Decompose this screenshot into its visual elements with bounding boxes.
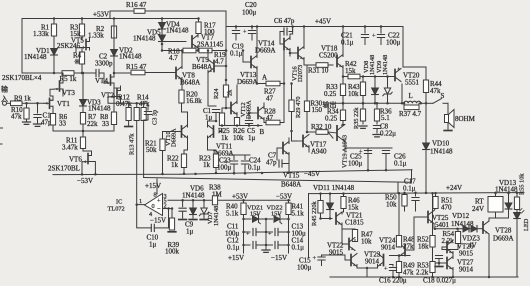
capacitor C3 3p [147,103,149,110]
transistor VT10 D669A [181,126,183,137]
wire C2-VT4 gate [104,73,105,83]
resistor R40 5.1k [241,203,246,215]
wire R50 10k [403,192,406,195]
wire VT12 collector [236,85,238,104]
capacitor C19 0.1u [235,25,238,28]
svg-text:3300p: 3300p [95,60,113,68]
resistor R7 22k [82,106,84,113]
wire +15V corner [144,178,412,183]
svg-text:R13 47k: R13 47k [129,133,136,155]
svg-text:15V: 15V [250,211,261,218]
svg-text:47k: 47k [430,87,441,95]
svg-text:0.1μ: 0.1μ [341,39,354,47]
wire VT23a base [345,259,351,261]
resistor R2 [113,19,115,27]
svg-text:+: + [268,231,272,238]
capacitor C15 100u [321,255,323,257]
svg-text:9015: 9015 [459,250,474,258]
node input terminal [3,101,7,105]
wire output line [330,102,404,104]
diode VD8 1N4148 [374,75,377,78]
svg-text:C16 220μ: C16 220μ [379,277,407,285]
svg-text:150: 150 [312,106,323,114]
svg-text:B648A: B648A [192,63,212,71]
capacitor C23 100u [233,155,235,160]
svg-text:47: 47 [266,95,274,103]
svg-text:2SK170BL×4: 2SK170BL×4 [2,74,42,82]
speaker 80HM [447,103,449,111]
wire VT14 collector [290,34,293,40]
resistor R25 1k [219,113,224,126]
wire VT14 base [280,43,284,45]
capacitor C12 0.1u [244,244,251,246]
transistor VT9 B648A [213,61,215,72]
wire VT18 collector [342,27,344,57]
svg-text:R31 10: R31 10 [308,67,329,75]
transistor VT15 B648A [282,143,284,154]
wire VT1-VT3 column [50,95,53,97]
wire L3-B2 link [397,182,399,193]
svg-text:16.8k: 16.8k [186,97,202,105]
wire VT6 drain [83,149,92,156]
wire R25 top [221,108,223,113]
svg-text:1k: 1k [171,161,179,169]
svg-text:+15V: +15V [145,182,161,190]
svg-text:−: − [157,206,161,213]
svg-text:+15V: +15V [228,254,244,262]
wire VT20 emitter down [401,84,403,103]
svg-text:+45V: +45V [315,18,331,26]
wire VT24 emitter [398,257,400,262]
svg-text:VT6: VT6 [69,156,82,164]
svg-text:VT1: VT1 [57,100,70,108]
svg-text:15k: 15k [348,204,359,212]
wire +45V rail [226,26,403,28]
wire VD5 bottom [161,42,163,51]
relay RT 24V [488,197,503,213]
node +15V out [243,251,245,253]
resistor R16 [134,9,145,14]
resistor R33 0.25 [342,77,344,85]
resistor R43 10k [362,75,365,78]
svg-text:2SK170BL: 2SK170BL [48,165,80,173]
svg-text:27k: 27k [403,243,414,251]
svg-text:2SA1145: 2SA1145 [197,41,224,49]
wire VT23b collector [377,255,379,257]
svg-text:8OHM: 8OHM [455,115,476,123]
resistor R34 0.25 [342,103,344,110]
wire VT9 base-x226 [214,65,226,67]
transistor VT18 C5200 [336,56,338,67]
wire VT13 base [243,61,251,63]
svg-text:1N4148: 1N4148 [182,192,205,200]
svg-text:50k: 50k [146,146,157,154]
svg-text:VT15: VT15 [283,172,300,180]
wire VT12b emitter [263,118,265,123]
wire VD2 bottom [113,56,115,73]
resistor R4 [79,52,84,64]
capacitor C13 100u [266,231,273,233]
wire VT20 collector node [402,27,404,68]
transistor VT11 D669A [213,126,215,137]
wire R32 branch [306,131,309,134]
svg-text:33: 33 [59,120,67,128]
wire opamp out [137,204,145,206]
switch S [426,102,433,104]
wire VT10 base [163,131,182,133]
svg-text:1N4148: 1N4148 [133,35,156,43]
resistor R31 10 [307,64,316,66]
svg-text:R9 1k: R9 1k [14,95,31,103]
transistor VT5 2SK246 [81,36,83,40]
wire VT22 base [342,229,349,244]
svg-text:10k: 10k [386,201,397,209]
resistor R36 5.1 [376,102,379,105]
svg-text:1N4148: 1N4148 [88,105,111,113]
resistor R20 16.8k [181,90,184,93]
svg-text:10k: 10k [233,134,244,142]
wire VT15 base [277,147,283,149]
wire A-node feedback [283,44,285,123]
wire R16 branch [109,11,111,19]
resistor R15 47 [114,72,131,74]
transistor VT16 D2073 [297,48,299,59]
wire VT14 emitter [289,49,291,57]
capacitor C10 1u [151,224,154,231]
svg-text:输: 输 [1,85,8,94]
capacitor C21 0.1u [364,25,367,28]
svg-text:1N4148: 1N4148 [430,148,453,156]
svg-text:1N4148: 1N4148 [495,186,518,194]
wire protection left edge [308,194,310,258]
resistor R24 2k [225,80,227,85]
resistor R9 1k [7,102,11,104]
wire VT12 emitter-R25 [236,113,238,118]
transistor VT28 D669A [482,222,484,233]
resistor R23 1k [213,154,218,168]
resistor R22 1k [181,154,186,168]
svg-text:VT4: VT4 [95,77,108,85]
wire VT3 gate [50,89,54,96]
diodes VD12 [463,226,469,232]
resistor mid column [143,103,145,107]
svg-text:0.1μ: 0.1μ [394,160,407,168]
svg-text:1μ: 1μ [205,114,213,122]
resistor R5 1k [62,71,74,76]
capacitor C24 0.1u [244,155,246,160]
transistor VT19 A1943 [336,126,338,140]
wire B node bus [222,125,262,127]
resistor R29 470 [291,84,293,101]
resistor R18 4.7 [162,50,183,52]
wire VT28 emitter [488,234,490,277]
svg-text:10k: 10k [361,238,372,246]
svg-text:LED: LED [523,218,530,231]
resistor R37 4.7 [403,103,405,107]
wire VT15 collector [288,138,290,144]
resistor R39 100k [171,209,173,219]
svg-text:1μ: 1μ [248,134,256,142]
transistor VT8 B648A [175,68,177,79]
wire rail right corner [411,170,413,183]
svg-text:R16 47: R16 47 [126,1,147,9]
svg-text:A940: A940 [311,148,327,156]
wire VT12b collector [263,103,265,109]
wire VT12 base [226,107,231,109]
svg-text:1N4148: 1N4148 [166,27,189,35]
wire R5 line [22,72,62,74]
capacitor C1 47p [36,102,39,105]
wire VT21 collector [341,212,343,214]
wire VT5 gate [76,48,81,52]
resistor R3 [81,19,83,25]
svg-text:0.1μ: 0.1μ [403,185,416,193]
svg-text:47k: 47k [403,269,414,277]
svg-text:3.47k: 3.47k [62,144,78,152]
svg-text:+: + [313,255,317,262]
svg-text:5.1k: 5.1k [292,210,305,218]
svg-text:4.7: 4.7 [215,58,224,66]
wire opamp V+ lead [156,179,158,194]
transistor VT1 [49,98,51,108]
svg-text:−53V: −53V [77,177,93,185]
svg-text:9014: 9014 [381,244,396,252]
wire VT17 emitter [308,146,310,153]
wire VT23 emitters [357,265,378,269]
wire VT18 emitter [342,66,344,77]
wire VT24 links [398,246,400,249]
resistor R49 47k [398,256,400,262]
wire VT13 collector up [256,27,258,58]
resistor R26 10k [234,118,239,126]
wire R48-R49 node [398,254,401,257]
wire VT25 base [414,216,428,218]
wire VT22 col/emit [354,239,356,241]
svg-text:IC: IC [116,199,122,206]
wire x307 rail [306,65,308,101]
svg-text:0.25: 0.25 [324,90,337,98]
svg-text:+24V: +24V [446,184,462,192]
wire VT17 base [292,140,298,142]
wire bottom rail [330,276,518,278]
svg-text:2k: 2k [227,89,234,96]
inductor L [404,101,421,103]
svg-text:2SK246: 2SK246 [57,42,80,50]
svg-text:+: + [246,231,250,238]
wire -53V rail left end [53,173,180,175]
wire R14 long vertical [136,121,138,205]
svg-text:1μ: 1μ [186,228,194,236]
wire VT16 emitter down [303,58,305,66]
resistor R47 10k [352,230,357,242]
diode VD5 [161,29,163,35]
svg-text:S: S [441,92,445,100]
capacitor C8 0.22u [376,121,378,124]
transistor VT27 9014 [446,258,448,269]
wire VT10 collector [187,112,189,127]
capacitor C14 0.1u [266,244,273,246]
svg-text:0.1μ: 0.1μ [227,244,240,252]
svg-text:5.1k: 5.1k [226,210,239,218]
svg-text:0.1μ: 0.1μ [230,50,243,58]
wire reg left rail [243,200,245,251]
svg-text:100μ: 100μ [242,9,257,17]
svg-text:1: 1 [139,198,142,205]
wire opamp in feedback loop [137,205,152,228]
wire VT15 emitter [288,153,290,173]
diode VD4 [161,19,163,23]
capacitor C2 3300p [74,72,96,74]
wire reg right rail [288,200,290,251]
svg-text:B648A: B648A [180,79,200,87]
svg-text:5.1: 5.1 [381,114,390,122]
node +53V rail [22,18,199,20]
resistor R55 10k [516,193,518,197]
resistor R41 5.1k [286,203,291,215]
resistor R1 [53,19,55,25]
capacitor C16 220u [389,268,396,271]
svg-text:0: 0 [152,203,155,210]
wire VT8 collector [181,51,183,69]
wire VT2 gate [108,97,112,103]
transistor VT13 D669A [250,57,252,68]
node -15V out [288,251,290,253]
svg-text:10k: 10k [348,90,359,98]
left edge artifacts [0,128,3,144]
svg-text:−53V: −53V [276,193,292,201]
svg-text:C3 3p: C3 3p [152,110,159,125]
transistor VT24 9014 [404,245,406,256]
svg-text:+: + [243,28,247,35]
svg-text:R5 1k: R5 1k [60,75,77,83]
diode VD9 1N4148 [386,75,389,78]
diode VD7 1N4148 [203,199,206,202]
ground R10 [26,119,28,122]
resistor R30 150 [306,100,308,103]
wire R47 top [342,228,355,231]
resistor R27 47 [257,83,266,85]
transistor VT20 5551 [394,70,396,81]
wire VT21 emitter [341,223,343,229]
wire VT12b base C5 [248,113,250,117]
wire VT25 emitter [433,224,435,229]
svg-text:+: + [372,32,376,39]
svg-text:R37 4.7: R37 4.7 [399,110,422,118]
wire VT11 collector [208,121,217,127]
svg-text:R15 47: R15 47 [126,63,147,71]
transistor VT26 9015 [446,242,448,253]
wire VT9 collector [207,51,209,62]
svg-text:A: A [262,74,267,82]
svg-text:1N4148: 1N4148 [369,55,376,75]
wire VT21 base row [321,218,331,220]
transistor VT6 2SK170BL [87,154,89,164]
wire servo bus [168,199,290,201]
resistor R48 27k [398,192,401,195]
svg-text:B: B [260,128,265,136]
svg-text:47p: 47p [266,159,277,167]
wire VT4-VT2 link [114,87,121,89]
ic U1 TL072 opamp [145,194,163,216]
capacitor C17 0.1u [414,192,417,195]
wire VT23b-C16 [390,265,394,267]
wire base-right node [168,209,170,228]
svg-text:C6 47p: C6 47p [274,17,295,25]
resistor R21 50k [160,139,165,151]
svg-text:0.1μ: 0.1μ [248,164,261,172]
resistor R51 470 [435,193,437,197]
wire VT8 base [168,72,176,74]
resistor R11 3.47k [82,130,85,133]
svg-text:4.7: 4.7 [169,54,178,62]
resistor R10 47k [25,102,28,105]
diode VD10 1N4148 [425,103,427,142]
svg-text:1N4148: 1N4148 [119,53,142,61]
svg-text:1.33k: 1.33k [33,30,49,38]
svg-text:VD11 1N4148: VD11 1N4148 [313,184,355,192]
svg-text:L: L [409,92,413,100]
svg-text:0.47k: 0.47k [116,100,132,108]
resistor R6 33 [52,110,54,114]
wire VT26/27 [452,252,454,259]
svg-text:D2073: D2073 [297,65,304,82]
svg-text:B648A: B648A [281,181,301,189]
svg-text:18k: 18k [418,243,429,251]
svg-text:※: ※ [74,58,80,66]
wire VT25 emitter node [434,228,463,230]
capacitor C11 100u [244,231,251,233]
svg-text:1N4148: 1N4148 [24,53,47,61]
wire VT16 base [290,52,298,54]
wire VT20 base [389,76,395,78]
resistor R45 220k [319,192,322,195]
capacitor C5 1u [248,117,250,119]
svg-text:VD10: VD10 [432,140,450,148]
wire VT11 base net [220,129,223,132]
svg-text:+: + [157,198,161,205]
wire R24 bottom [225,97,227,108]
wire VT8 emitter [181,78,183,94]
capacitor C22 100u [380,25,383,28]
svg-text:1k: 1k [221,134,229,142]
resistor R44 47k [425,67,427,80]
wire x226 vertical [225,27,227,91]
svg-text:VD12: VD12 [452,212,470,220]
svg-text:−15V: −15V [271,254,287,262]
svg-text:47: 47 [266,114,274,122]
transistor VT23b 9014 [383,255,385,266]
resistor R19 4.7 [196,50,199,52]
svg-text:D669A: D669A [255,47,276,55]
transistor VT7 2SA1145 [191,36,193,47]
diode VD2 [113,26,115,38]
svg-text:R45 220k: R45 220k [311,200,318,226]
svg-text:100μ: 100μ [297,264,312,272]
wire VT10-VT11 emitters [184,136,188,154]
svg-text:1.33k: 1.33k [88,32,104,40]
wire left border [21,19,23,74]
transistor VT2 [116,89,118,99]
svg-text:TL072: TL072 [108,206,125,213]
led LED [516,210,518,213]
svg-text:100μ: 100μ [217,164,232,172]
svg-text:1k: 1k [203,161,211,169]
transistor VT14 D669A [283,39,285,50]
resistor R8 33 [113,88,115,112]
transistor VT21 C1815 [335,213,337,224]
wire node line x120-148 [108,102,148,104]
svg-text:24V: 24V [472,205,484,213]
